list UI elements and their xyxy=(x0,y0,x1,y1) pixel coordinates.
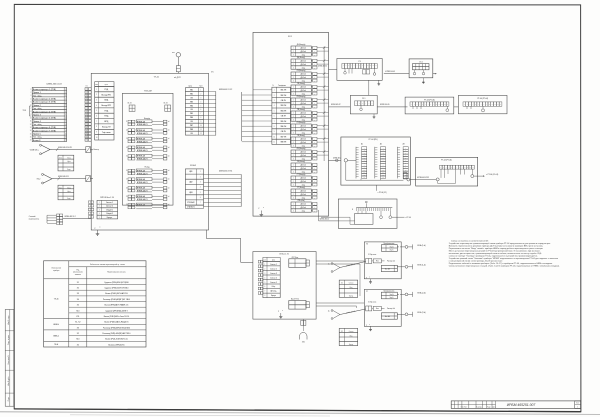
svg-text:сб: сб xyxy=(168,147,170,149)
left margin stamp boxes xyxy=(5,310,14,407)
wire U5 to RT-04 no2 xyxy=(377,106,407,108)
title block right cells xyxy=(575,401,581,409)
svg-text:ОВ ЛН: ОВ ЛН xyxy=(281,116,287,118)
svg-text:ЛВ1 ЛН: ЛВ1 ЛН xyxy=(280,90,287,92)
U2 plug connector below xyxy=(302,319,304,320)
svg-text:Инв.N дубл.: Инв.N дубл. xyxy=(8,376,10,386)
svg-text:Тлф связь: Тлф связь xyxy=(102,131,111,134)
svg-text:ПВ (Назад): ПВ (Назад) xyxy=(297,109,305,111)
У6 internal wires xyxy=(372,260,373,262)
svg-text:к РТ-04 (Х1-04): к РТ-04 (Х1-04) xyxy=(486,174,498,176)
svg-text:Подп.: Подп. xyxy=(8,396,10,401)
svg-text:Кабельные линии переговорной г: Кабельные линии переговорной гр. связи xyxy=(90,263,125,266)
connector pins of RIP xyxy=(88,201,91,203)
svg-text:Вызов (РЧБ1)4ЕГ-НА2С1В: Вызов (РЧБ1)4ЕГ-НА2С1В xyxy=(105,292,128,295)
svg-text:Х1: Х1 xyxy=(86,85,88,87)
svg-text:Х11: Х11 xyxy=(76,316,79,318)
svg-text:РИП-24 Вых.1 Х4: РИП-24 Вых.1 Х4 xyxy=(100,197,114,199)
svg-text:Тел. общ.: Тел. общ. xyxy=(33,108,42,110)
svg-text:Общий 1: Общий 1 xyxy=(106,208,113,211)
svg-text:ДБ 1об: ДБ 1об xyxy=(301,165,306,167)
svg-text:20: 20 xyxy=(126,204,128,206)
У6 output wire B xyxy=(397,266,405,268)
svg-text:НВМ-б: НВМ-б xyxy=(53,324,59,326)
svg-text:12: 12 xyxy=(200,133,202,135)
scan edge line at sheet bottom xyxy=(0,412,600,415)
wire BU to RG-04 xyxy=(329,159,341,161)
svg-text:ДБ 1об: ДБ 1об xyxy=(301,61,306,63)
svg-text:Х3: Х3 xyxy=(77,327,79,329)
RT-04 no4 connector strip xyxy=(439,165,442,169)
svg-text:Вызов запрещен 6 (ЛУВ): Вызов запрещен 6 (ЛУВ) xyxy=(33,127,56,129)
У6 ground xyxy=(370,279,372,280)
svg-text:ГВ (Назад): ГВ (Назад) xyxy=(297,135,305,137)
filter symbol F1 xyxy=(86,147,91,153)
svg-text:ВПМЕ-3А: ВПМЕ-3А xyxy=(137,187,146,190)
svg-text:ШЛИ4.465.2: ШЛИ4.465.2 xyxy=(333,158,341,160)
svg-text:ДБ 2об: ДБ 2об xyxy=(301,103,306,105)
svg-text:Прием 5: Прием 5 xyxy=(33,134,42,136)
wire bundle A from U1 to cable xyxy=(204,91,216,93)
svg-text:ДБ 1об: ДБ 1об xyxy=(301,113,306,115)
U2 left table xyxy=(263,257,280,261)
U3 connector strip xyxy=(342,64,345,69)
svg-text:ВМВ-б: ВМВ-б xyxy=(53,335,59,337)
svg-text:сб: сб xyxy=(168,187,170,189)
U5 circle xyxy=(360,108,363,111)
block U3 outline xyxy=(337,59,382,81)
wire U3 down xyxy=(368,80,370,95)
RG-04 output circle xyxy=(407,178,410,181)
block RG-04 outline xyxy=(341,137,410,185)
svg-text:16: 16 xyxy=(126,170,128,172)
svg-text:Х2: Х2 xyxy=(341,331,343,333)
inner module TU16 outline xyxy=(122,93,173,205)
svg-text:у: у xyxy=(95,227,96,229)
svg-text:ВПМЕ-3А: ВПМЕ-3А xyxy=(137,169,146,172)
svg-text:Судовая (РИБ)2059 1В*1В10: Судовая (РИБ)2059 1В*1В10 xyxy=(104,288,128,290)
svg-text:ХS1: ХS1 xyxy=(302,342,305,344)
svg-text:Корпус: Корпус xyxy=(349,344,354,346)
svg-text:Прием 3: Прием 3 xyxy=(33,114,42,116)
svg-text:17: 17 xyxy=(126,179,128,181)
diagonal cable to box 1а xyxy=(340,262,366,268)
svg-text:Конт: Конт xyxy=(200,85,203,87)
svg-text:ДБ 1об: ДБ 1об xyxy=(301,87,306,89)
svg-text:ЦВ общ.: ЦВ общ. xyxy=(270,291,277,293)
svg-text:Выход ИП1: Выход ИП1 xyxy=(101,94,111,96)
cable collector B xyxy=(240,174,242,206)
svg-text:ДБ 1об: ДБ 1об xyxy=(301,152,306,154)
svg-text:Переключить контакты "Вход" ли: Переключить контакты "Вход" линий с приб… xyxy=(449,247,544,250)
svg-text:сб: сб xyxy=(168,179,170,181)
block RT-04 number 3 outline xyxy=(458,95,507,113)
RT-04 no4 left circle xyxy=(436,178,439,181)
block У6 outline xyxy=(364,242,401,279)
svg-text:ДБ 1об: ДБ 1об xyxy=(301,191,306,193)
svg-text:ЛВ7: ЛВ7 xyxy=(190,125,193,127)
svg-text:Сигнал 3: Сигнал 3 xyxy=(270,273,277,275)
svg-text:ДБ 2об: ДБ 2об xyxy=(301,129,306,131)
title block xyxy=(451,401,581,409)
svg-text:ОПС Вып.: ОПС Вып. xyxy=(291,257,299,259)
svg-text:СВ (Назад): СВ (Назад) xyxy=(297,83,305,85)
RT-04 no4 output label xyxy=(478,175,484,177)
svg-text:ШЛИ4.465.51.2: ШЛИ4.465.51.2 xyxy=(65,216,76,218)
wire BU to U3 xyxy=(329,69,337,71)
svg-text:СТВ ВЫХ: СТВ ВЫХ xyxy=(187,202,195,204)
svg-text:N: N xyxy=(273,85,274,87)
svg-text:Вызов (РЧБ1)4ЕГа-Связ 1В 10: Вызов (РЧБ1)4ЕГа-Связ 1В 10 xyxy=(104,316,129,318)
svg-text:ДБ 1об: ДБ 1об xyxy=(301,126,306,128)
svg-text:Реле: Реле xyxy=(376,308,379,310)
U5 connector strip xyxy=(355,101,358,106)
svg-text:Тел. общ.: Тел. общ. xyxy=(33,95,42,97)
svg-text:конт: конт xyxy=(95,84,98,86)
svg-text:ГВ-2: ГВ-2 xyxy=(37,179,41,181)
svg-text:ВПМЕ-3А: ВПМЕ-3А xyxy=(137,120,146,123)
svg-text:Разговор 1об: Разговор 1об xyxy=(387,261,395,263)
svg-text:ДБ (Назад): ДБ (Назад) xyxy=(297,57,305,59)
svg-text:Реле: Реле xyxy=(376,261,379,263)
svg-text:Взам.инв.N: Взам.инв.N xyxy=(8,355,10,365)
RT-04 no4 pins xyxy=(440,169,442,178)
svg-text:12: 12 xyxy=(65,124,67,126)
svg-text:ЛВ3 ЛН: ЛВ3 ЛН xyxy=(280,105,287,107)
input fork ГВ-2 xyxy=(42,173,44,175)
svg-text:Цепь: Цепь xyxy=(189,85,193,87)
svg-text:ДБ 2об: ДБ 2об xyxy=(301,51,306,53)
svg-text:Х1 Х2: Х1 Х2 xyxy=(164,102,168,104)
svg-text:1а: 1а xyxy=(328,264,330,266)
svg-text:13: 13 xyxy=(126,138,128,140)
svg-text:12: 12 xyxy=(86,124,88,126)
svg-text:ДБ 2об: ДБ 2об xyxy=(301,155,306,157)
svg-text:Общий 2: Общий 2 xyxy=(106,212,113,215)
svg-text:Сигнал 1: Сигнал 1 xyxy=(270,264,277,266)
svg-text:Вызов запрещен 2 (ЛУВ): Вызов запрещен 2 (ЛУВ) xyxy=(33,99,56,101)
A2-04 entry routing xyxy=(338,220,354,222)
svg-text:ДБ 2об: ДБ 2об xyxy=(301,77,306,79)
svg-text:ВПМЕ-3А: ВПМЕ-3А xyxy=(137,138,146,141)
svg-text:У4.1: У4.1 xyxy=(419,61,422,63)
svg-text:ДБ 2об: ДБ 2об xyxy=(301,207,306,209)
svg-text:13: 13 xyxy=(86,127,88,129)
svg-text:Изм Лист: Изм Лист xyxy=(461,406,468,408)
RG-04 bottom small box xyxy=(403,173,407,179)
svg-text:РТ-04 (РТ-04): РТ-04 (РТ-04) xyxy=(441,160,452,162)
svg-text:Разговор (РИБ).465(ВГ)НАТ ТВ10: Разговор (РИБ).465(ВГ)НАТ ТВ10 xyxy=(102,332,130,335)
svg-text:Х1, Х2: Х1, Х2 xyxy=(75,322,80,324)
svg-text:Корпус: Корпус xyxy=(107,217,113,219)
svg-text:Х2: Х2 xyxy=(77,344,79,346)
svg-text:15: 15 xyxy=(86,133,88,135)
svg-text:15: 15 xyxy=(65,133,67,135)
svg-text:ШЛИ4.465.Х10.Х11: ШЛИ4.465.Х10.Х11 xyxy=(58,147,72,149)
svg-text:ЛВ3: ЛВ3 xyxy=(190,101,193,103)
svg-text:Корпус: Корпус xyxy=(271,295,276,297)
cable collector A left xyxy=(215,91,217,135)
block U2 outline xyxy=(253,252,316,320)
У7 output arrows xyxy=(412,292,414,297)
svg-text:ТУ16-2М: ТУ16-2М xyxy=(144,91,152,93)
aux table S4 xyxy=(339,328,358,345)
У7 output wire B xyxy=(397,313,405,315)
У6 output arrows xyxy=(412,244,414,249)
wire U1 to U2 xyxy=(205,230,207,239)
svg-text:ЦВ2: ЦВ2 xyxy=(189,182,192,184)
RT-04 no3 connector strip xyxy=(463,102,466,106)
svg-text:Нуль: Нуль xyxy=(67,191,70,193)
svg-text:Сигнал 1: Сигнал 1 xyxy=(106,202,113,204)
block У7 outline xyxy=(364,289,401,326)
svg-text:ПВ (Вперёд): ПВ (Вперёд) xyxy=(297,96,306,98)
svg-text:ЮПИ4.465.Х1ХЗ: ЮПИ4.465.Х1ХЗ xyxy=(417,177,429,179)
block A2-04 outline xyxy=(338,199,397,228)
svg-text:Х2: Х2 xyxy=(341,283,343,285)
svg-text:Обозначение: Обозначение xyxy=(51,268,61,270)
svg-text:ОВ ЛН: ОВ ЛН xyxy=(281,100,287,102)
U1 input circuit name table xyxy=(95,82,114,87)
RG-04 input circle xyxy=(344,159,347,162)
svg-text:ВПМЕ-3А: ВПМЕ-3А xyxy=(137,155,146,158)
antenna W1 xyxy=(176,53,180,57)
svg-text:Вызов (РЧБ-3б)ГВ.В(ТО-б): Вызов (РЧБ-3б)ГВ.В(ТО-б) xyxy=(105,339,128,341)
svg-text:ВЗ Б (1-й): ВЗ Б (1-й) xyxy=(418,263,426,266)
diagonal cable to box 2а xyxy=(340,309,366,315)
svg-text:ЛВ1: ЛВ1 xyxy=(190,90,193,92)
svg-text:11: 11 xyxy=(65,121,67,123)
svg-text:ОВ ЛН: ОВ ЛН xyxy=(281,131,287,133)
svg-text:(обозначение): (обозначение) xyxy=(73,272,83,274)
svg-text:прибора: прибора xyxy=(53,270,59,272)
svg-text:Корпус: Корпус xyxy=(349,296,354,298)
svg-text:Тел. общ.: Тел. общ. xyxy=(33,124,42,126)
svg-text:Сигнал: Сигнал xyxy=(349,331,354,333)
svg-text:ВПМЕ-3А: ВПМЕ-3А xyxy=(137,146,146,149)
svg-text:12: 12 xyxy=(126,130,128,132)
svg-text:ШЛИ4.465.Х2: ШЛИ4.465.Х2 xyxy=(318,66,327,68)
svg-text:ДБ 2об: ДБ 2об xyxy=(301,142,306,144)
svg-text:зажимов: зажимов xyxy=(75,274,81,276)
svg-text:цепь: цепь xyxy=(105,84,108,86)
svg-text:ГВ (Вперёд): ГВ (Вперёд) xyxy=(297,122,306,124)
svg-text:к РГ-04: к РГ-04 xyxy=(406,217,411,219)
block BU outline xyxy=(253,32,329,216)
svg-text:Вых.ОП Об.: Вых.ОП Об. xyxy=(291,299,300,301)
svg-text:14: 14 xyxy=(126,147,128,149)
svg-text:Х1: Х1 xyxy=(77,282,79,284)
U4 connector cells xyxy=(413,64,430,70)
svg-text:ТЛ-3: ТЛ-3 xyxy=(23,110,27,112)
wire RG-04 to RT-04 no4 xyxy=(410,179,416,181)
svg-text:СТ (Вперёд): СТ (Вперёд) xyxy=(297,174,306,176)
svg-text:ЦВ3: ЦВ3 xyxy=(189,192,192,194)
svg-text:к ним резервной линии связи пр: к ним резервной линии связи прибора 41-0… xyxy=(449,260,504,263)
svg-text:ДБ 2об: ДБ 2об xyxy=(301,116,306,118)
svg-text:ЛВ5 ЛН: ЛВ5 ЛН xyxy=(280,121,287,123)
wire bundle U2 lower xyxy=(316,302,364,304)
block RT-04 number 4 outline xyxy=(416,157,478,186)
svg-text:ШЛИ4.465.Х1 Х2: ШЛИ4.465.Х1 Х2 xyxy=(219,89,232,91)
wire U3 to U4 xyxy=(384,73,409,75)
svg-text:~220В 50Гц: ~220В 50Гц xyxy=(29,149,38,151)
svg-text:Х5: Х5 xyxy=(77,305,79,307)
ground below U5 xyxy=(373,114,375,115)
svg-text:ДБ 1об: ДБ 1об xyxy=(301,204,306,206)
svg-text:Назад: Назад xyxy=(145,167,150,169)
svg-text:16: 16 xyxy=(86,136,88,138)
svg-text:выключатель: выключатель xyxy=(29,218,39,220)
U2 left connector pins xyxy=(258,260,260,263)
RT-04 no2 connector strip xyxy=(410,102,413,106)
svg-text:ЛВ8: ЛВ8 xyxy=(190,129,193,131)
RT-04 no2 pins xyxy=(412,106,414,109)
BU internal bus vertical xyxy=(323,47,325,162)
svg-text:Устройство переговорное громко: Устройство переговорное громкоговорящей … xyxy=(449,242,552,245)
svg-text:18: 18 xyxy=(126,187,128,189)
svg-text:сб: сб xyxy=(168,138,170,140)
U3 mid boxes xyxy=(363,70,366,74)
svg-text:14: 14 xyxy=(86,130,88,132)
svg-text:ШЛИ4.465.51.03: ШЛИ4.465.51.03 xyxy=(47,83,63,85)
svg-text:Выход ГИ: Выход ГИ xyxy=(102,126,111,128)
RT-04 no3 pins xyxy=(466,106,468,109)
svg-text:Вызов запрещен 5 (ЛУВ): Вызов запрещен 5 (ЛУВ) xyxy=(33,118,56,120)
block U4 outline xyxy=(409,59,433,78)
RT-04 no4 right circle xyxy=(471,175,474,178)
svg-text:ДБ 1об: ДБ 1об xyxy=(301,100,306,102)
svg-text:ВЗ Б (2-й): ВЗ Б (2-й) xyxy=(418,311,426,314)
svg-text:Вызовы (ИРБ2)2Х5: Вызовы (ИРБ2)2Х5 xyxy=(108,344,124,346)
svg-text:Выход ИП2: Выход ИП2 xyxy=(101,105,111,107)
U3 pins and circles xyxy=(344,69,346,72)
svg-text:17: 17 xyxy=(65,140,67,142)
block U5 outline xyxy=(350,95,377,114)
svg-text:ШЛИ4.465.10: ШЛИ4.465.10 xyxy=(320,219,329,221)
arrow right of U4 xyxy=(433,73,437,75)
svg-text:Нуль: Нуль xyxy=(67,161,70,163)
У7 ground xyxy=(370,326,372,327)
svg-text:Х11: Х11 xyxy=(59,187,62,189)
svg-text:ЛВ6: ЛВ6 xyxy=(190,117,193,119)
svg-text:У5.1: У5.1 xyxy=(362,98,365,100)
svg-text:Подп.: Подп. xyxy=(487,406,492,408)
svg-text:Х10: Х10 xyxy=(76,310,79,312)
svg-text:Вызов запрещен 4 (ЛУВ): Вызов запрещен 4 (ЛУВ) xyxy=(33,111,56,113)
wire bundle U2 to V1 group xyxy=(316,260,364,262)
svg-text:Вызов запрещен 7 (ЛУВ): Вызов запрещен 7 (ЛУВ) xyxy=(33,130,56,132)
svg-text:СВ (Вперёд): СВ (Вперёд) xyxy=(297,70,306,72)
svg-text:Прием 1: Прием 1 xyxy=(33,92,42,94)
wire BU to U5 xyxy=(329,106,351,108)
svg-text:ТУ-1б: ТУ-1б xyxy=(154,77,160,79)
svg-text:2а: 2а xyxy=(328,311,330,313)
svg-text:ант: ант xyxy=(172,52,175,54)
svg-text:Цепь: Цепь xyxy=(272,259,276,261)
svg-text:17: 17 xyxy=(86,140,88,142)
svg-text:ИРБМ.465251.007: ИРБМ.465251.007 xyxy=(507,403,536,407)
svg-text:N: N xyxy=(352,209,353,211)
svg-text:сб: сб xyxy=(168,170,170,172)
svg-text:19: 19 xyxy=(126,196,128,198)
svg-text:Дата: Дата xyxy=(492,406,495,408)
svg-text:ДБ 2об: ДБ 2об xyxy=(301,90,306,92)
svg-text:Тел. общ.: Тел. общ. xyxy=(33,137,42,139)
svg-text:15: 15 xyxy=(126,155,128,157)
svg-text:У3: У3 xyxy=(358,61,360,63)
ground below U3 xyxy=(378,80,380,82)
svg-text:ВЗ А (1-й): ВЗ А (1-й) xyxy=(418,244,426,247)
svg-text:У2 Вых.1 Х1: У2 Вых.1 Х1 xyxy=(279,253,289,255)
svg-text:Подп. и дата: Подп. и дата xyxy=(8,335,10,345)
svg-text:ЛВ5: ЛВ5 xyxy=(190,113,193,115)
svg-text:ДБ 1об: ДБ 1об xyxy=(301,178,306,180)
svg-text:ТЛ-3в: ТЛ-3в xyxy=(54,299,59,301)
wire RT-04 no2 to no3 xyxy=(454,106,459,108)
cable collector A right xyxy=(241,92,243,141)
svg-text:Общ.: Общ. xyxy=(272,286,276,288)
svg-text:Упр. Б: Упр. Б xyxy=(390,297,394,299)
svg-text:Х3 ВЫХ: Х3 ВЫХ xyxy=(190,165,197,167)
U4 circles xyxy=(413,72,416,75)
svg-text:10: 10 xyxy=(200,125,202,127)
svg-text:ДБ 2об: ДБ 2об xyxy=(301,64,306,66)
svg-text:Вперёд: Вперёд xyxy=(144,118,150,120)
RT-04 no4 bottom route xyxy=(437,181,439,184)
svg-text:сб: сб xyxy=(168,204,170,206)
svg-text:Х4: Х4 xyxy=(77,299,79,301)
svg-text:Схема включения переговорных с: Схема включения переговорных станций. (Т… xyxy=(449,265,560,268)
svg-text:ЛВ7 ЛН: ЛВ7 ЛН xyxy=(280,136,287,138)
svg-text:Вызов (ЕРБ)4АГР-НАВЖ.Об: Вызов (ЕРБ)4АГР-НАВЖ.Об xyxy=(105,304,129,307)
input fork ~220В 50Гц xyxy=(40,144,42,146)
У7 output wire A xyxy=(400,293,405,295)
svg-text:Прием 2: Прием 2 xyxy=(33,105,42,107)
A2-04 connector comb xyxy=(356,207,392,209)
RG-04 bottom wire xyxy=(375,185,377,191)
svg-text:ДД1: ДД1 xyxy=(365,202,368,204)
device column group separators xyxy=(44,318,69,320)
svg-text:ДБ (Вперёд): ДБ (Вперёд) xyxy=(297,44,306,46)
svg-text:Сигнал 2: Сигнал 2 xyxy=(106,206,113,208)
svg-text:16: 16 xyxy=(65,137,67,139)
svg-text:ШЛИ4.465.Х3 Х4: ШЛИ4.465.Х3 Х4 xyxy=(219,171,232,173)
svg-text:Разговор 1об: Разговор 1об xyxy=(387,308,395,310)
svg-text:ЛВ8 ЛН: ЛВ8 ЛН xyxy=(280,142,287,144)
svg-text:согласно таблице "Таблица" при: согласно таблице "Таблица" приборам ТЛ-3… xyxy=(449,255,538,258)
svg-text:сб: сб xyxy=(168,196,170,198)
svg-text:10: 10 xyxy=(86,117,88,119)
svg-text:ДБ 1об: ДБ 1об xyxy=(301,48,306,50)
svg-text:Лист: Лист xyxy=(576,403,579,405)
cable stubs into BU xyxy=(242,94,253,96)
svg-text:Сетевой: Сетевой xyxy=(29,215,36,218)
svg-text:ДБ 2об: ДБ 2об xyxy=(301,194,306,196)
wire GV to U1 xyxy=(54,178,86,180)
RG-04 bottom rail xyxy=(345,162,347,180)
filter symbol F2 xyxy=(86,176,91,182)
connector X1 pin strip of U1 xyxy=(85,88,88,91)
svg-text:ВПМЕ-3А: ВПМЕ-3А xyxy=(137,178,146,181)
У6 output table xyxy=(381,265,397,271)
svg-text:10: 10 xyxy=(96,137,98,139)
svg-text:Разговор (РЧБ1)А2(ВГ1)ЕГ 1В-В: Разговор (РЧБ1)А2(ВГ1)ЕГ 1В-В xyxy=(103,298,131,301)
aux table S3 xyxy=(339,280,358,297)
svg-text:ВПМЕ-3А: ВПМЕ-3А xyxy=(137,129,146,132)
svg-text:к РТ-04 (Х2): к РТ-04 (Х2) xyxy=(378,192,387,194)
A2-04 circles xyxy=(380,216,383,219)
